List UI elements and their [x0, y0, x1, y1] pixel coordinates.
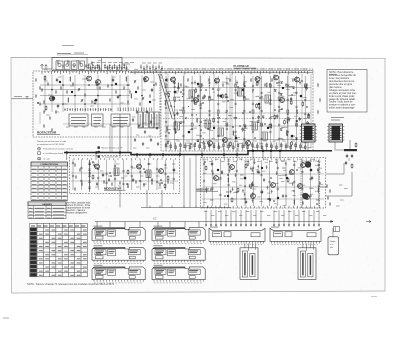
PCB module PL5301 pin row — [94, 241, 143, 243]
legend symbol: test point — [38, 158, 41, 160]
diode D104 — [263, 179, 265, 181]
wire AGC rail — [130, 72, 313, 74]
PCB module PL5301 small part 2 — [129, 237, 135, 240]
wire drops from bus to MF module — [96, 153, 163, 159]
value label — [210, 98, 214, 100]
wire — [119, 75, 121, 112]
wire — [39, 112, 41, 124]
module BF dark knots — [217, 167, 313, 199]
PCB module PL5311 small part — [96, 256, 104, 259]
capacitor C84 — [306, 86, 308, 90]
rotacteur lower-left parts — [43, 110, 57, 132]
table: commutations cell text — [32, 169, 67, 200]
svg-text:Mesure tension sur TP: Mesure tension sur TP — [102, 147, 123, 150]
transistor Q10 — [193, 98, 198, 103]
wire — [167, 74, 169, 148]
wire — [164, 112, 311, 114]
BF right sub-enclosure — [301, 161, 320, 208]
transistor Q25 — [213, 176, 218, 181]
transistor Q5 — [170, 77, 175, 82]
capacitor C28 — [257, 115, 259, 119]
capacitor C111 — [261, 190, 263, 194]
table: header row text — [31, 225, 85, 227]
table: transistor voltages row headers — [30, 228, 37, 276]
output stage transistor Q26 — [305, 162, 311, 168]
mixer section dense pack — [140, 65, 163, 72]
capacitor C40 — [217, 93, 219, 97]
IF transformer T2 — [238, 88, 244, 96]
capacitor C48 — [258, 106, 260, 110]
daughter board B1 inner strip A — [242, 251, 247, 277]
diode D116 — [269, 199, 271, 201]
connector module CN1 part A — [213, 232, 222, 237]
TR1 driver transformer — [300, 124, 317, 142]
arrow to chassis — [366, 221, 371, 223]
value label — [158, 182, 162, 184]
capacitor C44 — [244, 124, 246, 128]
svg-text:NOTA : Dans le chassis 71 nou: NOTA : Dans le chassis 71 nouveau tous l… — [27, 282, 115, 286]
transistor Q3 — [95, 80, 100, 85]
connector module CN2 outline — [270, 228, 321, 241]
rotacteur extra parts — [41, 82, 157, 106]
capacitor C76 — [197, 94, 199, 98]
PCB module PL5322 small part 2 — [189, 276, 195, 279]
resistor R27 — [168, 92, 170, 97]
IF transformer T5 — [252, 122, 258, 130]
UHF tuner head box — [52, 58, 122, 71]
MODULE BF label underline — [197, 190, 219, 192]
inductor L77 — [174, 121, 177, 126]
PCB module PL5301 IC block C — [128, 230, 140, 235]
transistor Q6 — [214, 78, 219, 83]
wire — [349, 140, 351, 149]
wire link column c — [195, 155, 197, 208]
PCB module PL5322 outline — [152, 267, 205, 280]
module MF ladders — [72, 160, 175, 191]
capacitor C92 — [132, 178, 134, 182]
shield partition — [231, 74, 233, 148]
inductor L45 — [285, 130, 288, 135]
tuner divider — [86, 58, 88, 71]
PCB module PL5302 small part — [156, 236, 164, 239]
platine dark knots — [174, 83, 303, 140]
table: commutations header — [31, 162, 68, 166]
wire — [332, 228, 334, 237]
main +12V supply bus — [64, 151, 332, 155]
leader line to label — [57, 54, 88, 57]
wire — [109, 124, 111, 152]
wire — [164, 100, 311, 102]
wire harness line — [95, 221, 333, 223]
inductor L14 — [67, 98, 70, 103]
inductor L113 — [317, 188, 320, 193]
table: gammes header — [28, 202, 66, 206]
resistor R63 — [274, 114, 276, 119]
PCB module PL5312 small part 2 — [189, 256, 195, 259]
wire — [164, 139, 311, 141]
PCB module PL5322 small part — [156, 275, 164, 278]
PCB module PL5321 IC block B — [108, 269, 116, 275]
wire — [259, 74, 261, 148]
IF transformer T7 — [146, 170, 151, 178]
inductor L10 — [125, 77, 128, 82]
diode D54 — [180, 122, 182, 124]
platine right edge parts — [317, 83, 321, 114]
value label — [279, 108, 283, 110]
transistor Q9 — [294, 77, 299, 82]
svg-text:blindees obligatoires: blindees obligatoires — [66, 212, 88, 215]
value label — [226, 83, 230, 85]
PCB module PL5321 pin numbers — [94, 282, 142, 284]
inductor L29 — [196, 118, 199, 123]
capacitor C32 — [177, 86, 179, 90]
resistor R88 — [92, 174, 94, 179]
capacitor C36 — [288, 117, 290, 121]
PCB module PL5302 outline — [152, 228, 205, 241]
IF transformer T5d — [174, 122, 180, 130]
IF transformer T3 — [265, 95, 271, 103]
bus junction dots — [66, 150, 282, 156]
PCB module PL5302 pin numbers — [154, 243, 202, 245]
resistor R79 — [195, 88, 197, 93]
wire — [164, 87, 311, 89]
connector module CN2 part C — [307, 233, 316, 237]
oscillator section dense pack — [88, 64, 128, 71]
MF left area parts — [74, 163, 83, 191]
module BF junction dots — [204, 161, 321, 205]
output transistor Q27 (dark) — [303, 193, 309, 199]
MODULE BF dashed enclosure — [201, 158, 326, 209]
PCB module PL5301 outline — [92, 228, 145, 241]
wire — [213, 74, 215, 148]
wire risers to bus — [112, 126, 128, 153]
value label — [331, 119, 340, 121]
diode D58 — [262, 116, 264, 118]
value label — [282, 167, 286, 169]
tuner segment 1 — [56, 61, 63, 70]
module MF tick row — [74, 158, 175, 160]
table: commutations grid — [31, 162, 68, 201]
capacitor C80 — [299, 117, 301, 121]
value label — [208, 123, 212, 125]
wire — [348, 158, 350, 161]
transistor Q1 — [86, 76, 91, 81]
svg-text:TP accessible BF: TP accessible BF — [102, 157, 119, 159]
wire — [71, 180, 178, 182]
value label — [74, 52, 84, 54]
harness drop wires column 2 — [158, 222, 199, 228]
adjustment info text — [330, 241, 336, 249]
wire — [71, 172, 178, 174]
wire — [326, 163, 344, 174]
PCB module PL5322 IC block A — [155, 269, 166, 274]
daughter board B2 inner strip A — [300, 251, 305, 277]
transistor Q21 — [300, 163, 305, 168]
harness arrowhead — [331, 221, 333, 223]
inductor L109 — [205, 188, 208, 193]
diode D42 — [257, 121, 259, 123]
capacitor C103 — [257, 170, 259, 174]
MODULE MF label underline — [104, 189, 126, 191]
svg-text:sulter avant depannage: sulter avant depannage — [329, 107, 355, 110]
wire — [202, 198, 324, 200]
connector module CN2 pin numbers — [272, 244, 319, 246]
capacitor C64 — [276, 114, 278, 118]
wire (diagonal link) — [162, 74, 176, 118]
svg-text:a l oscilloscope (haut): a l oscilloscope (haut) — [43, 152, 63, 155]
transistor Q16 — [136, 164, 141, 169]
resistor R106 — [287, 177, 289, 182]
PCB module PL5312 IC block B — [168, 250, 176, 256]
right-of-box component chain — [326, 184, 331, 206]
switch wafer S3 — [111, 114, 130, 126]
component string inside MF — [88, 160, 90, 192]
wire — [183, 74, 185, 148]
inductor L57 — [166, 126, 169, 131]
platine value labels — [165, 79, 312, 148]
tuner segment 2 — [65, 61, 71, 70]
capacitor C85 — [346, 154, 348, 158]
daughter board B2 feed wires — [303, 244, 314, 251]
IF transformer T5b — [218, 128, 224, 136]
inductor L101 — [227, 178, 230, 183]
capacitor C24 — [203, 94, 205, 98]
inductor L117 — [293, 200, 296, 205]
daughter board B2 outline — [298, 248, 316, 279]
resistor R67 — [291, 141, 293, 146]
inductor L37 — [265, 83, 268, 88]
PCB module PL5311 IC block C — [128, 250, 140, 255]
capacitor C99 — [211, 162, 213, 166]
value label — [233, 117, 237, 119]
inter-stage labels — [132, 117, 159, 148]
IF transformer T5c — [262, 132, 268, 140]
transistor Q22 — [143, 77, 148, 82]
diode D93 — [151, 179, 153, 181]
inductor L105 — [251, 182, 254, 187]
inductor L49 — [296, 109, 299, 114]
switch wafer S6 — [144, 112, 149, 128]
PCB module PL5312 pin row — [154, 260, 203, 262]
resistor R35 — [284, 120, 286, 125]
BF to connector drop wires — [205, 210, 320, 227]
IF transformer T6 — [114, 168, 119, 176]
PCB module PL5312 small part — [156, 256, 164, 259]
switch wafer S8 — [155, 112, 159, 128]
wire — [12, 98, 34, 100]
inter-stage cluster — [132, 110, 159, 146]
value label — [289, 86, 293, 88]
module BF ladders — [203, 160, 320, 206]
resistor R51 — [222, 94, 224, 99]
service note heading underline — [329, 73, 337, 75]
transistor Q22 — [297, 184, 302, 189]
transistor Q2 — [49, 96, 54, 101]
wire MF drop 2 — [146, 190, 148, 208]
PCB module PL5311 IC block A — [95, 250, 106, 255]
svg-text:MODULE BF: MODULE BF — [197, 187, 214, 191]
wire — [326, 172, 352, 196]
transistor Q7 — [255, 77, 260, 82]
value label — [179, 109, 183, 111]
PCB module PL5302 pin row — [154, 241, 203, 243]
connector module CN1 part B — [224, 232, 231, 237]
transistor Q12 — [222, 138, 227, 143]
capacitor C86 — [351, 154, 353, 158]
PCB module PL5312 pin numbers — [154, 262, 202, 264]
switch wafer S1 — [69, 114, 88, 126]
rotacteur top labels — [44, 68, 156, 70]
wire — [164, 125, 311, 127]
resistor R8 — [96, 81, 98, 86]
rotacteur wiring grid — [40, 75, 154, 112]
wire — [202, 186, 324, 188]
PCB module PL5302 small part 2 — [189, 237, 195, 240]
switch wafer S2 — [92, 114, 104, 126]
capacitor C118 — [345, 161, 347, 165]
value label — [226, 191, 230, 193]
wire — [42, 68, 52, 70]
switch wafer S5 — [138, 112, 143, 128]
value label — [143, 183, 147, 185]
right-of-box labels — [336, 185, 348, 206]
capacitor C60 — [290, 97, 292, 101]
transistor Q14 — [207, 141, 212, 146]
tuner interior parts — [57, 60, 100, 68]
module MF lower parts — [103, 180, 169, 187]
diode D38 — [197, 100, 199, 102]
resistor R97 — [164, 183, 166, 188]
value label — [203, 123, 207, 125]
PLATINE HF dashed enclosure — [161, 69, 313, 151]
inductor L61 — [236, 91, 239, 96]
module BF tick row — [203, 159, 319, 161]
value label — [210, 226, 218, 228]
platine divider dashed — [163, 118, 311, 120]
value label — [246, 98, 250, 100]
transistor Q19 — [270, 183, 275, 188]
PCB module PL5301 pin numbers — [94, 243, 142, 245]
aerial terminal — [26, 97, 29, 99]
platine component ladders — [165, 76, 306, 148]
transistor Q23 — [304, 195, 309, 200]
adjustment info box — [328, 237, 339, 255]
resistor R47 — [290, 100, 292, 105]
channel coil bank — [118, 108, 152, 112]
PCB module PL5321 IC block C — [128, 269, 140, 274]
daughter board B1 feed wires — [245, 244, 256, 251]
PCB module PL5311 outline — [92, 247, 145, 260]
value label — [94, 245, 103, 247]
diode D62 — [295, 138, 297, 140]
value label — [271, 226, 279, 228]
legend symbol: square pad 1 — [98, 146, 100, 148]
diode D26 — [292, 87, 294, 89]
capacitor C95 — [173, 168, 175, 172]
wire (diagonal link) — [159, 74, 173, 118]
trimmer capacitor CV19 — [142, 97, 145, 101]
mixer pack labels — [142, 62, 162, 64]
daughter board B1 inner strip B — [250, 253, 255, 276]
wire — [130, 127, 132, 150]
inductor L6 — [69, 77, 72, 82]
diode D46 — [197, 83, 199, 85]
resistor R87 — [355, 142, 357, 147]
inductor L18 — [130, 94, 133, 99]
PCB module PL5321 small part — [96, 275, 104, 278]
daughter board B2 inner strip B — [308, 253, 313, 276]
wire — [307, 142, 309, 150]
wire MF drop 1 — [119, 190, 121, 208]
tuner divider 2 — [101, 58, 103, 71]
inductor L25 — [270, 124, 273, 129]
tuner segment 4 — [79, 61, 85, 70]
wire — [336, 149, 344, 151]
wire — [320, 186, 328, 188]
value label — [210, 199, 214, 201]
connector module CN1 pin numbers — [211, 244, 263, 246]
wire — [202, 173, 324, 175]
harness drop wires column 1 — [97, 222, 140, 228]
value label — [228, 115, 232, 117]
connector module CN1 part C — [251, 233, 260, 237]
legend symbol: alignment point — [38, 147, 41, 150]
wire risers from platine to bus — [180, 148, 237, 155]
trimmer capacitor CV11 — [134, 80, 137, 84]
wire — [63, 123, 158, 125]
resistor R119 — [351, 163, 353, 168]
wire — [62, 75, 64, 112]
resistor R94 — [167, 175, 169, 180]
resistor R39 — [256, 103, 258, 108]
PCB module PL5302 IC block A — [155, 230, 166, 235]
PCB module PL5302 IC block B — [168, 230, 176, 236]
svg-text:CC: CC — [153, 218, 157, 221]
PCB module PL5311 pin row — [94, 260, 143, 262]
resistor R4 — [44, 75, 46, 80]
resistor R102 — [245, 163, 247, 168]
diode D34 — [280, 128, 282, 130]
value label — [190, 128, 194, 130]
module MF note text — [66, 202, 91, 215]
svg-text:GAMMES: GAMMES — [42, 203, 52, 206]
wire — [301, 74, 303, 148]
wire — [40, 84, 130, 86]
resistor R59 — [229, 141, 231, 146]
transistor Q15 — [94, 164, 99, 169]
transistor Q13 — [245, 141, 250, 146]
wire drops from bus to BF module — [202, 151, 280, 159]
left edge junction — [37, 102, 39, 104]
PCB module PL5322 IC block B — [168, 269, 176, 275]
svg-text:vu cote: vu cote — [43, 157, 51, 160]
transistor Q24 — [250, 194, 255, 199]
service note text box — [327, 70, 367, 113]
resistor R55 — [308, 114, 310, 119]
rail value labels — [168, 68, 307, 70]
ROTACTEUR label underline — [37, 134, 60, 136]
PCB module PL5321 small part 2 — [129, 276, 135, 279]
PLATINE HF label underline — [234, 67, 257, 69]
diode D66 — [167, 141, 169, 143]
wire — [122, 63, 130, 65]
MODULE MF dashed enclosure — [70, 156, 180, 194]
wafer box labels — [66, 126, 154, 128]
value label — [94, 264, 103, 266]
PCB module PL5311 pin numbers — [94, 262, 142, 264]
table: transistor voltages — [30, 223, 88, 276]
resistor R75 — [213, 118, 215, 123]
